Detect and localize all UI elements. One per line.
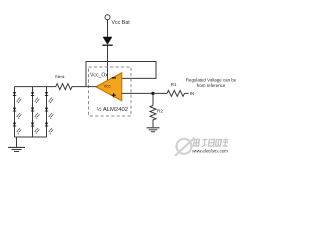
svg-text:Vcc_Ox: Vcc_Ox xyxy=(90,73,108,79)
wire R1 to IN xyxy=(185,92,189,94)
non-inverting input wire xyxy=(122,92,153,94)
node junction R1 R2 xyxy=(151,92,154,95)
svg-text:Vcc: Vcc xyxy=(104,83,112,88)
op-amp U1 xyxy=(96,73,122,101)
ground R2 xyxy=(147,128,160,132)
feedback wire output to inverting input xyxy=(86,62,156,87)
wire terminal to diode xyxy=(107,20,109,37)
svg-text:½ ALM2402: ½ ALM2402 xyxy=(97,106,128,113)
LED D7 xyxy=(31,123,40,134)
LED D3 xyxy=(13,108,21,119)
svg-text:IN: IN xyxy=(190,91,195,96)
svg-text:Rlimit: Rlimit xyxy=(55,75,65,79)
resistor R1 xyxy=(167,90,184,96)
svg-text:from reference: from reference xyxy=(197,83,226,88)
LED D9 xyxy=(45,108,54,119)
svg-text:R2: R2 xyxy=(157,109,163,114)
wire junction to R1 xyxy=(153,92,167,94)
svg-text:R1: R1 xyxy=(171,82,177,87)
dashed box ALM2402 xyxy=(89,67,132,116)
wire LED column 2 xyxy=(32,87,34,137)
annotation regulated voltage xyxy=(186,78,237,88)
ground LED array xyxy=(8,147,25,151)
watermark logo elecfans xyxy=(175,138,228,156)
svg-text:www.elecfans.com: www.elecfans.com xyxy=(192,148,228,153)
diode D1 xyxy=(102,37,112,45)
wire diode to op-amp Vcc pin xyxy=(107,46,109,82)
wire bottom rail to ground xyxy=(16,137,18,147)
LED D10 xyxy=(45,123,54,134)
svg-text:Vcc Bat: Vcc Bat xyxy=(112,20,131,26)
LED D6 xyxy=(31,108,40,119)
terminal Vcc Bat xyxy=(105,15,110,20)
wire LED column 3 xyxy=(46,87,48,137)
resistor Rlimit xyxy=(56,84,72,90)
resistor R2 xyxy=(150,106,156,120)
LED D2 xyxy=(13,92,21,103)
wire LED bottom rail xyxy=(15,136,47,138)
LED D4 xyxy=(13,123,21,134)
LED D5 xyxy=(31,92,40,103)
wire LED top rail xyxy=(15,86,56,88)
wire LED column 1 xyxy=(14,87,16,137)
LED D8 xyxy=(45,92,54,103)
output wire op-amp to Rlimit xyxy=(72,86,97,88)
wire R2 to ground xyxy=(152,120,154,128)
wire junction to R2 xyxy=(152,93,154,105)
